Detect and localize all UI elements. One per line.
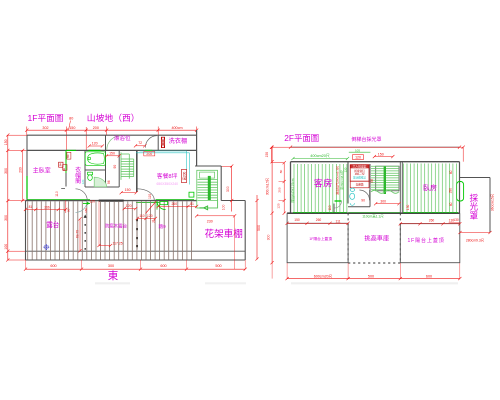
hatch guest room [294, 164, 347, 212]
dim text 150 top [69, 126, 75, 130]
door tag upper [66, 152, 71, 159]
wall 2F right [459, 162, 461, 214]
svg-text:臥房: 臥房 [423, 183, 437, 192]
svg-text:280cm9.3尺: 280cm9.3尺 [466, 239, 485, 243]
deck hatch lines [28, 201, 192, 259]
svg-text:260: 260 [171, 202, 177, 206]
hatch bedroom 2F [404, 164, 457, 213]
svg-text:150: 150 [4, 139, 8, 145]
label roof left [309, 236, 332, 241]
window green mid-wall a [66, 149, 76, 151]
svg-text:客餐8坪: 客餐8坪 [157, 172, 178, 180]
dim 72 [134, 141, 147, 147]
dim text 300 left a [4, 168, 8, 174]
wall 1F middle horizontal [27, 149, 197, 151]
bathtub [85, 152, 105, 166]
label carport [205, 228, 243, 240]
svg-text:60: 60 [449, 170, 453, 174]
svg-text:300: 300 [266, 234, 270, 240]
dim inner 200 left [18, 149, 24, 202]
svg-text:266: 266 [44, 205, 50, 209]
dim 150 stair2F [373, 152, 395, 158]
svg-text:挑高車庫: 挑高車庫 [364, 234, 389, 242]
dim col 500 mid [255, 195, 260, 261]
svg-text:69.75: 69.75 [76, 230, 80, 238]
wall closet left [65, 150, 67, 186]
window green mid-wall b [89, 149, 101, 151]
wall hall right [136, 150, 138, 192]
stair 2F [371, 166, 399, 194]
gdim right vert [339, 167, 348, 190]
label shower [114, 134, 131, 142]
svg-text:260: 260 [316, 218, 322, 222]
svg-text:90: 90 [113, 165, 117, 169]
svg-text:120: 120 [90, 199, 96, 203]
title skylight note [352, 136, 382, 143]
dim text 500 2F [368, 274, 374, 278]
wall door vert 2F [333, 204, 335, 214]
svg-text:105: 105 [355, 148, 360, 152]
svg-text:600: 600 [160, 264, 166, 268]
svg-text:120: 120 [81, 179, 85, 184]
svg-text:淋浴位: 淋浴位 [114, 134, 131, 142]
label dining [157, 172, 178, 180]
svg-text:150: 150 [378, 152, 384, 156]
sill green main bottom [27, 199, 194, 201]
svg-text:500: 500 [368, 274, 374, 278]
wall guest right [347, 162, 349, 204]
dim 110 stairb [148, 194, 152, 199]
dim col right 1F [221, 164, 233, 211]
title hillside west [87, 112, 140, 123]
wall hall bottom thick [99, 199, 124, 201]
dim text 200 top [93, 126, 99, 130]
svg-text:480—72: 480—72 [355, 172, 365, 176]
dim 96 bath [107, 180, 111, 184]
dim 150 hallw [105, 152, 121, 158]
svg-text:150: 150 [125, 188, 131, 192]
wall tub bottom [85, 169, 106, 171]
door laundry red [161, 137, 164, 147]
svg-text:117.25: 117.25 [113, 241, 123, 245]
label step9 [159, 223, 167, 230]
svg-text:150: 150 [294, 218, 300, 222]
svg-text:81: 81 [29, 205, 33, 209]
dim row left roof [286, 218, 350, 225]
sill green 2F [293, 212, 458, 214]
door 2F green [335, 201, 342, 208]
svg-text:120: 120 [126, 204, 132, 208]
wall deck left [25, 201, 27, 260]
garage dashed [348, 213, 400, 263]
svg-text:120: 120 [276, 203, 280, 208]
green rect kitchen b [189, 192, 194, 197]
dim row 260-81 [157, 202, 199, 208]
svg-text:80: 80 [66, 154, 70, 158]
svg-text:倒梯台採光罩: 倒梯台採光罩 [352, 136, 382, 143]
svg-text:300: 300 [108, 264, 114, 268]
svg-text:短邊牆: 短邊牆 [356, 183, 364, 187]
green rect kitchen a [160, 202, 168, 205]
svg-text:260: 260 [429, 218, 435, 222]
svg-text:110: 110 [139, 214, 144, 218]
svg-text:150: 150 [69, 126, 75, 130]
label master bedroom [33, 167, 51, 175]
svg-text:8: 8 [60, 163, 62, 167]
dim row 110-120-76 [136, 214, 157, 223]
svg-text:110: 110 [328, 205, 332, 210]
gdim 400cm [291, 154, 349, 160]
gdim 110cm [362, 214, 384, 219]
cyan line a [136, 153, 189, 185]
svg-text:按摩浴缸: 按摩浴缸 [354, 169, 365, 173]
svg-text:洗衣棚: 洗衣棚 [169, 137, 188, 145]
dim 230 carport [195, 214, 236, 269]
dim chain 2F top [270, 146, 465, 162]
door tag lower [59, 162, 67, 171]
dim 120 boxed 2F [353, 155, 364, 160]
dim gao200 boxed [181, 170, 186, 183]
door top arc [107, 136, 121, 150]
svg-text:150: 150 [109, 152, 115, 156]
svg-text:72: 72 [138, 141, 142, 145]
svg-text:110cm高1.1尺: 110cm高1.1尺 [362, 214, 384, 219]
blue plant glyph [43, 243, 50, 252]
svg-text:200: 200 [146, 152, 152, 156]
svg-text:650X350X240: 650X350X240 [157, 182, 179, 186]
label east [108, 269, 119, 282]
svg-text:600cm20尺: 600cm20尺 [314, 274, 333, 278]
svg-text:防腐木露台: 防腐木露台 [105, 222, 128, 229]
dim col 240 inner [272, 161, 286, 215]
label deck front [105, 222, 128, 229]
svg-text:300cm1.5尺: 300cm1.5尺 [265, 177, 269, 195]
dim text 300 bot [108, 264, 114, 268]
svg-text:80: 80 [279, 170, 283, 174]
svg-text:80: 80 [69, 117, 73, 121]
gdim left wall vert [290, 178, 295, 202]
svg-text:400cm20尺: 400cm20尺 [310, 154, 330, 158]
dims right room [449, 170, 454, 206]
dim 69.75 vert [76, 217, 82, 252]
toilet 2F [350, 188, 355, 205]
label bedroom 2F [423, 183, 437, 192]
svg-text:120: 120 [92, 141, 98, 145]
dim chain 2F bottom [272, 263, 461, 280]
dim text 302 [42, 126, 48, 130]
roof rect right [400, 213, 460, 263]
svg-text:500: 500 [215, 264, 221, 268]
dim row right roof [399, 218, 462, 225]
label guest room [314, 178, 333, 189]
svg-text:300: 300 [4, 168, 8, 174]
dim 110 bedroom [55, 189, 65, 197]
window green left wall [26, 176, 28, 199]
dim 58 [370, 179, 374, 183]
svg-text:衣帽間: 衣帽間 [74, 166, 81, 186]
dim 300 stairb [374, 200, 401, 206]
dim text 600 2F [426, 274, 432, 278]
stair block exterior [197, 170, 218, 210]
wall shower right [105, 135, 107, 187]
wall 1F right upper [196, 130, 198, 166]
dim text 100 left [4, 244, 8, 250]
dim text 600 b [160, 264, 166, 268]
window green mid-wall c [145, 149, 152, 151]
svg-text:淋浴拉門280cm9.3尺: 淋浴拉門280cm9.3尺 [335, 166, 340, 195]
ghost text mid [205, 282, 246, 284]
toilet [81, 172, 93, 184]
dim text 80 leader [69, 117, 74, 130]
wall 2F top [291, 161, 460, 163]
svg-text:山坡地（西）: 山坡地（西） [87, 112, 140, 123]
ghost text right [291, 282, 458, 284]
svg-text:300: 300 [4, 215, 8, 221]
dim 120 shower [88, 141, 104, 147]
svg-text:500: 500 [257, 225, 261, 231]
dim column 1F left [6, 133, 27, 261]
title 1F plan [28, 113, 64, 123]
wall 2F left [290, 162, 292, 214]
svg-text:1F陽台上蓋頂: 1F陽台上蓋頂 [408, 237, 445, 244]
dim chain 1F top [25, 127, 198, 151]
wall 2F bottom [287, 212, 460, 214]
svg-text:76: 76 [152, 220, 156, 224]
label dining sub [157, 182, 179, 186]
cyan rect kitchen [140, 151, 187, 179]
wall carport right [244, 201, 246, 261]
svg-text:100: 100 [221, 204, 225, 210]
svg-text:玻璃纖維缸: 玻璃纖維缸 [353, 176, 366, 180]
dim text 300 left b [4, 215, 8, 221]
dim 200 boxed [144, 152, 155, 157]
svg-text:360cm15尺: 360cm15尺 [490, 193, 494, 211]
svg-text:200: 200 [93, 126, 99, 130]
green arrow deck door [83, 199, 95, 205]
title 2F plan [284, 133, 319, 143]
dim text 150 left [4, 139, 8, 145]
svg-text:400cm: 400cm [171, 126, 182, 130]
rdim tall vert [335, 166, 340, 195]
dim 150 stair [120, 188, 138, 194]
svg-text:2F平面圖: 2F平面圖 [284, 133, 319, 143]
dim col 2F left outer [265, 146, 274, 265]
dim 90 2F [361, 199, 365, 203]
svg-text:200: 200 [18, 167, 22, 173]
label closet vertical [74, 166, 81, 186]
label garage [364, 234, 389, 242]
svg-text:1F平面圖: 1F平面圖 [28, 113, 64, 123]
wall 1F top [27, 134, 197, 136]
dim row deck a [24, 201, 88, 213]
gdim 105 [349, 148, 371, 152]
roof rect left [287, 213, 348, 263]
dim text 500 bot [215, 264, 221, 268]
door terrace green arc [157, 201, 166, 210]
guardrail dashed deck [84, 215, 87, 252]
sill green door lower [136, 201, 160, 203]
svg-text:81: 81 [190, 202, 194, 206]
svg-text:100: 100 [4, 244, 8, 250]
label skylight vert [469, 192, 479, 219]
svg-text:120: 120 [147, 214, 153, 218]
bathtub spec box [350, 165, 369, 188]
skylight box top [460, 177, 491, 179]
dim 130 room [406, 205, 410, 211]
dim 120 low [123, 204, 138, 210]
svg-text:200: 200 [277, 187, 281, 192]
door bath 2F arc [359, 190, 369, 200]
dim 130 skl [449, 218, 460, 223]
dim text 400cm top [171, 126, 182, 130]
ghost text left [95, 282, 130, 284]
svg-text:302: 302 [42, 126, 48, 130]
svg-text:120: 120 [355, 156, 361, 160]
wall bath right [369, 164, 371, 207]
dim 110 door2F [328, 205, 332, 210]
svg-text:主臥室: 主臥室 [33, 167, 51, 175]
label roof right [408, 237, 445, 244]
svg-text:120: 120 [343, 167, 347, 172]
skylight box right [489, 178, 491, 233]
svg-text:花架車棚: 花架車棚 [205, 228, 243, 240]
svg-text:六人按摩缸: 六人按摩缸 [353, 165, 367, 169]
svg-text:300: 300 [380, 200, 386, 204]
svg-text:58: 58 [370, 179, 374, 183]
svg-text:130: 130 [406, 205, 410, 211]
door dining arc [138, 189, 155, 200]
dim 280cm skylight [458, 231, 491, 243]
stair interior 1F [121, 152, 134, 180]
wall deck bottom [26, 259, 246, 261]
svg-text:96: 96 [107, 180, 111, 184]
rdim skylight vert [490, 193, 494, 211]
svg-text:高200: 高200 [181, 172, 186, 181]
svg-text:230: 230 [207, 220, 213, 224]
wall stairblock top [195, 165, 232, 167]
wall carport top [221, 200, 245, 202]
dim chain 1F bottom [24, 260, 247, 271]
svg-text:陽台640X110cm: 陽台640X110cm [290, 178, 295, 202]
svg-text:60: 60 [449, 202, 453, 206]
svg-text:130: 130 [453, 218, 459, 222]
svg-text:600: 600 [50, 264, 56, 268]
svg-text:踏9: 踏9 [159, 223, 167, 230]
label laundry [169, 137, 188, 145]
wall deck inner [26, 250, 246, 252]
svg-text:111: 111 [335, 219, 340, 223]
wall bath bottom2F [348, 206, 370, 208]
svg-text:客房: 客房 [314, 178, 333, 189]
svg-text:280: 280 [449, 188, 453, 194]
svg-text:110: 110 [55, 191, 59, 197]
svg-text:東: 東 [108, 269, 119, 282]
svg-text:❉: ❉ [43, 243, 50, 252]
wall bath bottom [85, 186, 119, 188]
label terrace [46, 220, 60, 229]
wall laundry left [157, 135, 159, 150]
dim text 600 a [50, 264, 56, 268]
wall planter deck [136, 217, 138, 250]
wall main bottom [26, 200, 197, 202]
wall bath left [84, 150, 86, 187]
svg-text:採光罩: 採光罩 [469, 192, 479, 219]
wall stair right dbl [400, 162, 402, 214]
svg-text:露台: 露台 [46, 220, 60, 229]
svg-text:110: 110 [148, 194, 152, 199]
skylight window green [457, 182, 464, 202]
svg-text:180: 180 [84, 208, 88, 213]
dim text 600cm20 [314, 274, 333, 278]
wall hall left [118, 150, 120, 187]
svg-text:90: 90 [361, 199, 365, 203]
svg-text:150: 150 [265, 152, 269, 158]
dim 90 hall [113, 165, 117, 169]
wall stairblock right [220, 166, 222, 201]
wall 1F left [26, 135, 28, 200]
svg-text:90: 90 [67, 208, 71, 212]
door bedroom arc [76, 189, 88, 213]
svg-text:300: 300 [226, 186, 230, 192]
door laundry arc [145, 136, 157, 148]
leader red diag [146, 201, 157, 213]
svg-text:600: 600 [426, 274, 432, 278]
door bath arc [94, 177, 106, 187]
dim 117.25 [97, 201, 122, 247]
svg-text:1F陽台上蓋頂: 1F陽台上蓋頂 [309, 236, 332, 241]
